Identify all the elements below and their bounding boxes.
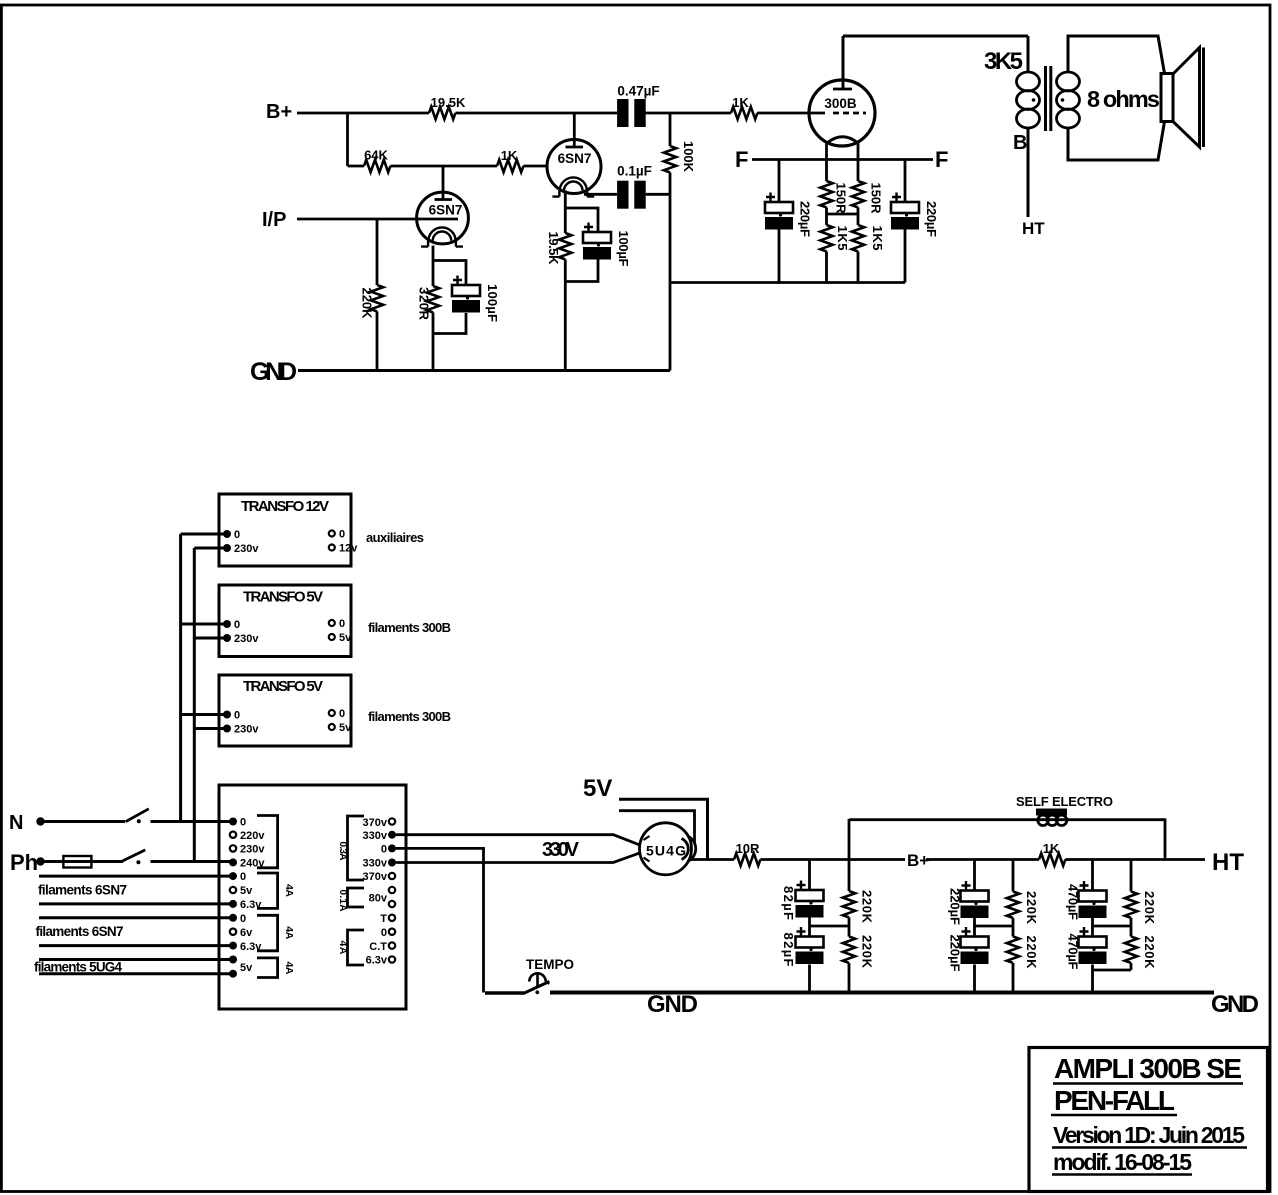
T2 winding bracket rectifier	[348, 930, 365, 965]
svg-text:Ph: Ph	[10, 850, 38, 875]
svg-text:230v: 230v	[234, 633, 259, 645]
svg-text:HT: HT	[1022, 219, 1045, 238]
wire tie stage2	[975, 925, 1014, 928]
svg-text:4A: 4A	[283, 926, 295, 939]
svg-text:150R: 150R	[869, 183, 884, 215]
tube V2 5U4G	[640, 823, 696, 875]
svg-text:12v: 12v	[339, 543, 358, 555]
svg-text:auxiliaires: auxiliaires	[366, 530, 424, 545]
wire B+ branch to 64K line	[348, 113, 591, 166]
svg-text:220µF: 220µF	[798, 201, 813, 237]
svg-text:0: 0	[339, 708, 345, 720]
tube V1 300B	[809, 80, 875, 146]
svg-text:TRANSFO 12V: TRANSFO 12V	[241, 498, 329, 515]
T2 winding bracket mains	[257, 816, 278, 868]
svg-text:6.3v: 6.3v	[366, 955, 388, 967]
wire filament 5UG4 pair	[39, 960, 233, 974]
svg-text:220K: 220K	[1142, 936, 1157, 970]
transformer box TRANSFO 5V first	[219, 585, 352, 657]
T2 winding bracket 6SN7 A	[257, 873, 278, 908]
svg-text:filaments 300B: filaments 300B	[368, 709, 451, 724]
svg-text:220µF: 220µF	[948, 935, 963, 972]
svg-text:330v: 330v	[363, 830, 388, 842]
svg-text:1K: 1K	[501, 148, 518, 163]
svg-text:HT: HT	[1212, 849, 1244, 876]
switch N	[44, 820, 125, 823]
svg-text:B+: B+	[266, 101, 292, 123]
svg-text:10R: 10R	[736, 841, 760, 856]
wire filament leg left 300B	[825, 142, 828, 283]
svg-text:B: B	[1013, 132, 1027, 154]
transformer box TRANSFO 5V second	[219, 675, 352, 746]
svg-text:0: 0	[234, 529, 240, 541]
T2 winding bracket HV	[348, 816, 365, 880]
svg-text:filaments 300B: filaments 300B	[368, 620, 451, 635]
resistor 220K input	[376, 219, 379, 371]
switch Ph	[122, 850, 145, 861]
wire HV 330v upper	[396, 835, 641, 846]
resistor 220K first lower	[848, 963, 851, 993]
svg-text:220µF: 220µF	[924, 201, 939, 237]
capacitor 0.47uF	[617, 99, 646, 127]
svg-text:0: 0	[381, 844, 387, 856]
capacitor 220uF stage2 lower	[973, 965, 976, 993]
svg-text:300B: 300B	[824, 96, 857, 111]
svg-text:0: 0	[381, 927, 387, 939]
wire cathode U2 to 0.1uF	[584, 193, 670, 196]
svg-text:220K: 220K	[1142, 891, 1157, 925]
resistor 150R right	[852, 181, 864, 207]
wire filament leg right 300B	[857, 142, 860, 283]
wire secondary to speaker top	[1068, 36, 1165, 74]
svg-text:230v: 230v	[234, 543, 259, 555]
svg-text:6SN7: 6SN7	[429, 203, 463, 218]
resistor 19.5K	[429, 107, 455, 119]
svg-text:370v: 370v	[363, 871, 388, 883]
svg-text:220K: 220K	[360, 288, 375, 320]
svg-text:B+: B+	[907, 851, 929, 870]
resistor 10R	[734, 853, 760, 865]
svg-text:0.1A: 0.1A	[337, 890, 348, 912]
svg-text:220K: 220K	[860, 890, 875, 924]
svg-text:PEN-FALL: PEN-FALL	[1054, 1085, 1175, 1116]
svg-text:0: 0	[240, 817, 246, 829]
svg-text:470µF: 470µF	[1066, 934, 1081, 970]
resistor 150R left	[820, 181, 832, 207]
wire secondary to speaker bottom	[1068, 122, 1165, 161]
svg-text:5v: 5v	[240, 962, 253, 974]
svg-text:230v: 230v	[240, 844, 265, 856]
transformer T1 core	[1046, 66, 1051, 131]
wire tie stage3 bottom	[1093, 969, 1132, 972]
svg-text:1K: 1K	[1043, 841, 1060, 856]
switch TEMPO	[485, 957, 574, 994]
resistor 1K5 right	[852, 225, 864, 251]
svg-text:82µF: 82µF	[781, 933, 796, 967]
svg-text:1K5: 1K5	[870, 226, 885, 251]
svg-text:100µF: 100µF	[616, 231, 631, 267]
resistor 220K first upper	[848, 819, 851, 937]
wire 5V heater lower	[619, 811, 695, 843]
resistor 1K filter	[1039, 853, 1065, 865]
svg-text:SELF ELECTRO: SELF ELECTRO	[1016, 794, 1113, 809]
svg-text:370v: 370v	[363, 817, 388, 829]
T2 winding bracket 6SN7 B	[257, 915, 278, 951]
wire filament 6SN7 first pair	[39, 876, 233, 904]
capacitor C1 100uF	[452, 276, 480, 313]
capacitor 220uF right	[904, 160, 907, 283]
capacitor C2 100uF	[583, 223, 611, 260]
svg-text:0: 0	[339, 618, 345, 630]
svg-text:4A: 4A	[283, 962, 295, 975]
svg-text:5U4G: 5U4G	[646, 843, 686, 859]
wire choke rail	[849, 820, 1165, 860]
svg-text:5v: 5v	[240, 885, 253, 897]
transformer T1 secondary	[1057, 72, 1080, 128]
resistor 320R	[427, 286, 439, 312]
svg-text:I/P: I/P	[262, 209, 286, 231]
wire rectifier output	[692, 858, 906, 861]
svg-text:320R: 320R	[417, 287, 432, 321]
svg-text:19.5K: 19.5K	[431, 95, 466, 110]
svg-text:0: 0	[234, 710, 240, 722]
wire cathode U2	[565, 191, 598, 371]
svg-text:0.47µF: 0.47µF	[617, 84, 659, 99]
svg-text:F: F	[935, 147, 948, 172]
wire B+ rail	[297, 112, 809, 115]
resistor 1K (driver plate feed)	[497, 160, 523, 172]
svg-text:GND: GND	[647, 991, 698, 1018]
wire HV centre tap	[396, 848, 484, 992]
svg-text:8 ohms: 8 ohms	[1087, 86, 1160, 112]
svg-text:64K: 64K	[364, 148, 388, 163]
svg-text:470µF: 470µF	[1066, 884, 1081, 920]
fuse F1	[44, 860, 123, 863]
wire B+ HT rail	[926, 858, 1205, 861]
tube U2 6SN7	[547, 140, 601, 197]
svg-text:GND: GND	[1211, 991, 1259, 1018]
svg-text:0.3A: 0.3A	[337, 842, 348, 861]
svg-text:GND: GND	[250, 358, 297, 386]
svg-text:TEMPO: TEMPO	[526, 957, 574, 972]
T2 left pins	[229, 817, 265, 978]
capacitor 82uF upper	[808, 860, 811, 937]
choke SELF ELECTRO	[1016, 794, 1113, 826]
resistor 19.5K cathode	[559, 233, 571, 259]
capacitor 82uF lower	[808, 965, 811, 993]
svg-text:0: 0	[240, 871, 246, 883]
T2 winding bracket 5UG4	[257, 958, 278, 978]
wire hum pot tie	[827, 213, 859, 216]
tube U1 6SN7	[417, 192, 469, 247]
svg-text:5V: 5V	[583, 775, 612, 802]
svg-text:220µF: 220µF	[948, 888, 963, 925]
resistor 220K stage3 upper	[1130, 860, 1133, 937]
svg-text:TRANSFO 5V: TRANSFO 5V	[243, 678, 323, 695]
capacitor 470uF upper	[1091, 860, 1094, 937]
svg-text:100K: 100K	[681, 141, 696, 173]
svg-text:1K: 1K	[732, 95, 749, 110]
svg-text:TRANSFO 5V: TRANSFO 5V	[243, 589, 323, 606]
svg-text:80v: 80v	[369, 893, 388, 905]
svg-text:150R: 150R	[834, 183, 849, 215]
wire F rail	[752, 158, 933, 161]
wire I/P to grid U1	[297, 218, 458, 221]
svg-text:330V: 330V	[542, 839, 580, 861]
svg-text:5v: 5v	[339, 632, 352, 644]
transformer T1 primary	[1017, 36, 1040, 217]
svg-text:F: F	[735, 147, 748, 172]
wire HV 330v lower	[396, 853, 641, 863]
wire anode 300B to primary	[843, 36, 1028, 89]
transformer box TRANSFO 12V	[219, 494, 358, 566]
wire tie stage3	[1093, 925, 1132, 928]
svg-text:AMPLI 300B SE: AMPLI 300B SE	[1054, 1053, 1242, 1084]
svg-text:100µF: 100µF	[485, 284, 500, 322]
svg-text:C.T: C.T	[369, 941, 387, 953]
T2 right pins	[363, 817, 396, 967]
T2 winding bracket 80v	[348, 888, 365, 907]
capacitor 220uF stage2 upper	[973, 860, 976, 937]
svg-text:220K: 220K	[1024, 891, 1039, 925]
resistor 64K	[364, 160, 390, 172]
capacitor 0.1uF	[617, 181, 646, 209]
resistor 100K grid leak	[669, 113, 672, 371]
wire phase bus	[194, 548, 227, 862]
svg-text:220K: 220K	[1024, 936, 1039, 970]
resistor 220K stage2 lower	[1012, 963, 1015, 993]
title block	[1029, 1048, 1268, 1192]
svg-text:330v: 330v	[363, 858, 388, 870]
power transformer box T2	[219, 785, 406, 1009]
svg-text:filaments 6SN7: filaments 6SN7	[38, 883, 127, 898]
wire anode U1	[442, 166, 445, 200]
svg-text:4A: 4A	[337, 941, 349, 955]
svg-text:82µF: 82µF	[781, 886, 796, 920]
wire 5V heater upper	[619, 799, 708, 859]
wire tie first stage	[810, 925, 850, 928]
wire filament bottom rail	[670, 281, 905, 284]
svg-text:0: 0	[339, 529, 345, 541]
svg-text:5v: 5v	[339, 722, 352, 734]
speaker LS1	[1161, 48, 1204, 148]
svg-text:6v: 6v	[240, 927, 253, 939]
svg-text:1K5: 1K5	[835, 226, 850, 251]
svg-text:0.1µF: 0.1µF	[617, 164, 652, 179]
wire cathode U1	[433, 246, 466, 371]
wire anode U2	[573, 113, 576, 147]
svg-text:19.5K: 19.5K	[546, 232, 561, 266]
svg-text:3K5: 3K5	[984, 48, 1023, 75]
capacitor 470uF lower	[1091, 965, 1094, 993]
capacitor 220uF left	[778, 160, 781, 283]
resistor 220K stage3 lower	[1130, 963, 1133, 970]
svg-text:T: T	[380, 913, 387, 925]
svg-text:4A: 4A	[283, 884, 295, 897]
wire GND upper rail	[298, 369, 670, 372]
svg-text:0: 0	[240, 913, 246, 925]
svg-text:220K: 220K	[860, 935, 875, 969]
svg-text:0: 0	[234, 619, 240, 631]
svg-text:modif. 16-08-15: modif. 16-08-15	[1053, 1149, 1192, 1175]
svg-text:230v: 230v	[234, 724, 259, 736]
resistor 1K5 left	[820, 225, 832, 251]
resistor 220K stage2 upper	[1012, 860, 1015, 937]
svg-text:Version 1D: Juin 2015: Version 1D: Juin 2015	[1053, 1122, 1245, 1148]
wire GND bottom rail	[550, 991, 1214, 995]
svg-text:filaments 6SN7: filaments 6SN7	[36, 924, 124, 939]
svg-text:220v: 220v	[240, 830, 265, 842]
wire filament 6SN7 second pair	[39, 918, 233, 946]
wire neutral bus	[181, 534, 227, 822]
svg-text:N: N	[9, 812, 23, 834]
svg-text:6SN7: 6SN7	[558, 151, 592, 166]
resistor 1K grid stopper 300B	[731, 107, 757, 119]
